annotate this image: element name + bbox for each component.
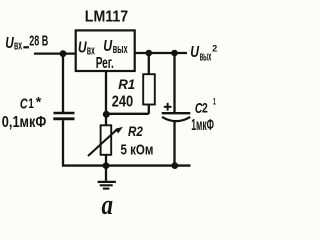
svg-text:U: U [190,44,199,61]
svg-text:вх: вх [14,37,22,52]
svg-text:U: U [78,40,87,57]
svg-text:1мкФ: 1мкФ [191,117,214,134]
svg-text:вых: вых [200,48,212,63]
svg-text:28 В: 28 В [29,33,48,49]
svg-text:1: 1 [28,95,34,111]
svg-text:LM117: LM117 [85,9,129,26]
svg-text:240: 240 [112,93,134,110]
svg-text:U: U [5,35,14,52]
svg-text:вых: вых [113,41,129,56]
svg-text:R1: R1 [118,76,135,92]
svg-text:вх: вх [87,42,96,57]
svg-text:Рег.: Рег. [96,55,114,72]
svg-text:2: 2 [212,43,217,53]
svg-text:C: C [20,96,29,113]
svg-text:R2: R2 [128,123,143,139]
svg-text:U: U [103,38,112,55]
svg-text:а: а [102,189,114,221]
svg-text:*: * [36,94,42,110]
svg-text:1: 1 [213,97,216,108]
svg-text:5 кОм: 5 кОм [121,142,154,159]
svg-text:0,1мкФ: 0,1мкФ [2,114,47,131]
svg-text:2: 2 [202,100,208,116]
